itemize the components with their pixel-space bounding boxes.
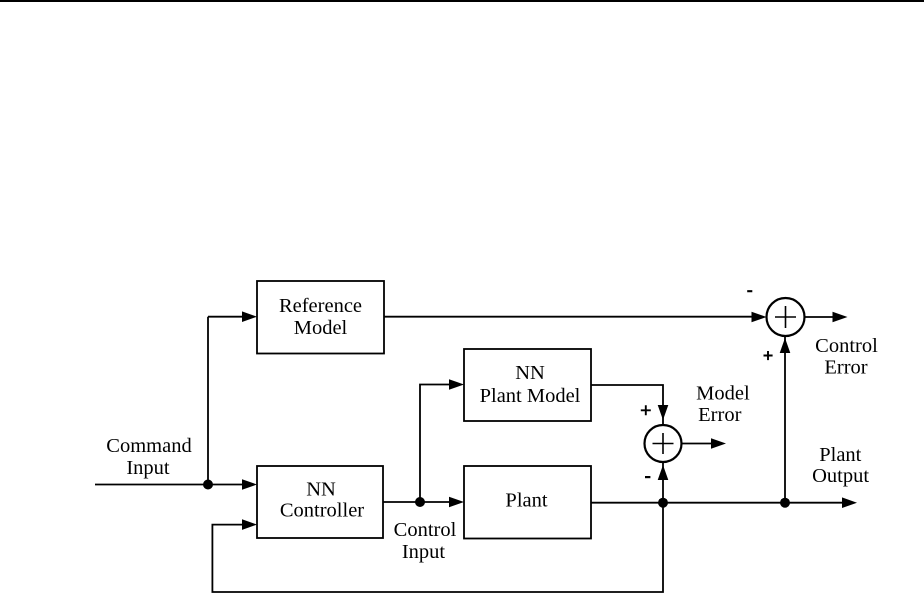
block Reference Model [257, 281, 384, 354]
svg-text:Plant Model: Plant Model [480, 385, 581, 407]
wire plant output up to control sum bottom [784, 336, 786, 503]
node command junction dot [203, 480, 213, 490]
arrowhead down into model sum top [658, 405, 669, 420]
arrowhead into NN Controller input 1 [242, 479, 257, 490]
label minus at model sum [645, 476, 650, 478]
label plus at control sum [764, 351, 773, 360]
page header rule [0, 0, 924, 2]
wire command input horizontal [95, 484, 244, 486]
svg-text:Controller: Controller [280, 500, 364, 522]
arrowhead up into model sum bottom [658, 465, 669, 480]
label Control Error [815, 335, 878, 378]
wire NN Controller output to Plant [383, 501, 451, 503]
wire feedback loop [212, 503, 663, 592]
block NN Plant Model [464, 349, 591, 421]
label Plant Output [812, 444, 869, 487]
svg-text:Input: Input [402, 541, 446, 563]
node plant output junction dot 2 [780, 498, 790, 508]
wire model sum output [682, 443, 714, 445]
svg-text:NN: NN [515, 362, 545, 384]
svg-text:Control: Control [394, 519, 457, 541]
label Command Input [106, 435, 191, 479]
svg-text:NN: NN [306, 479, 336, 501]
wire NN Plant Model output to model sum [591, 385, 663, 425]
label minus at control sum [747, 290, 752, 292]
arrowhead into NN Plant Model [449, 379, 464, 390]
wire command branch up [207, 317, 209, 485]
svg-text:Plant: Plant [819, 444, 861, 466]
wire plant output horizontal [591, 502, 844, 504]
arrowhead plant output [842, 497, 857, 508]
arrowhead into NN Controller input 2 [242, 519, 257, 530]
arrowhead model error output [711, 438, 726, 449]
summing junction control error [767, 298, 805, 336]
label Control Input [394, 519, 457, 563]
svg-text:Input: Input [126, 457, 170, 479]
svg-text:Command: Command [106, 435, 191, 457]
svg-text:Output: Output [812, 465, 869, 487]
arrowhead control error output [833, 312, 848, 323]
svg-text:Plant: Plant [505, 490, 547, 512]
label plus at model sum [641, 405, 651, 415]
wire into Reference Model [208, 316, 244, 318]
block NN Controller [257, 466, 383, 538]
svg-text:Reference: Reference [279, 295, 362, 317]
node plant output junction dot 1 [658, 498, 668, 508]
svg-text:Error: Error [698, 404, 741, 426]
wire Reference Model output to control sum [384, 316, 754, 318]
arrowhead up into control sum bottom [780, 338, 791, 353]
arrowhead into control sum left [752, 312, 767, 323]
svg-text:Control: Control [815, 335, 878, 357]
wire control sum output [805, 316, 835, 318]
node control input junction dot [415, 497, 425, 507]
wire plant output up to model sum bottom [662, 462, 664, 503]
wire control input branch up [420, 385, 451, 503]
svg-text:Model: Model [294, 317, 348, 339]
svg-text:Error: Error [824, 356, 867, 378]
arrowhead into Reference Model [242, 311, 257, 322]
svg-text:Model: Model [696, 382, 750, 404]
label Model Error [696, 382, 750, 426]
arrowhead into Plant [449, 497, 464, 508]
summing junction model error [645, 425, 682, 462]
block Plant [464, 466, 591, 539]
